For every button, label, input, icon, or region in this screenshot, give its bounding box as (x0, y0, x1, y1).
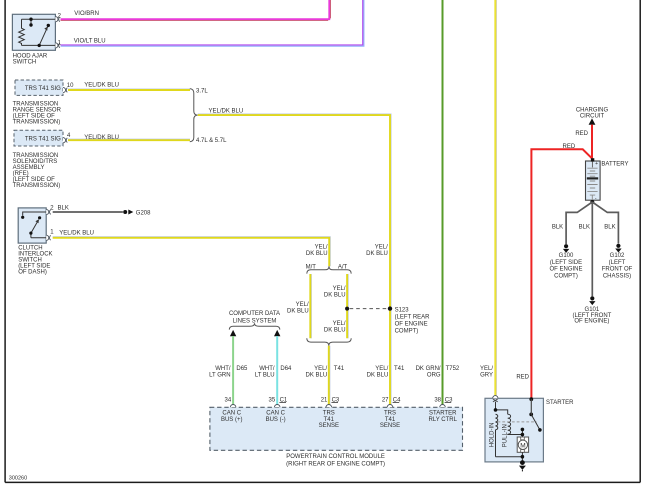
svg-text:TRS T41 SIG: TRS T41 SIG (25, 137, 61, 143)
svg-text:RED: RED (516, 374, 529, 380)
wire WHT/LT BLU (276, 336, 278, 407)
label BLK (604, 225, 615, 231)
svg-text:YEL/: YEL/ (333, 286, 346, 292)
svg-text:ORG: ORG (427, 372, 441, 378)
wire (dashed link to splice S123) (350, 308, 388, 310)
svg-text:YEL/DK BLU: YEL/DK BLU (209, 109, 244, 115)
label VIO/LT BLU (74, 38, 106, 44)
svg-text:YEL/: YEL/ (296, 302, 309, 308)
svg-text:YEL/DK BLU: YEL/DK BLU (84, 83, 119, 89)
label YEL/DK BLU (above M/T split) (306, 245, 328, 257)
svg-text:STARTER: STARTER (546, 400, 574, 406)
svg-text:G102: G102 (610, 253, 625, 259)
svg-text:(LEFT: (LEFT (609, 260, 626, 266)
label YEL/DK BLU (M/T) (287, 302, 309, 314)
svg-text:300260: 300260 (9, 475, 27, 481)
wire BLK (battery to G100) (566, 202, 592, 244)
label DK GRN/ORG (416, 366, 441, 379)
ground G208 (123, 210, 151, 217)
label YEL/DK BLU (splice branch) (366, 245, 388, 257)
svg-text:21: 21 (321, 397, 328, 403)
svg-text:DK BLU: DK BLU (306, 251, 328, 257)
label A/T (338, 264, 348, 270)
svg-text:3.7L: 3.7L (196, 89, 208, 95)
svg-text:BLK: BLK (58, 206, 69, 212)
svg-text:DK GRN/: DK GRN/ (416, 366, 441, 372)
svg-text:PULL-IN: PULL-IN (502, 424, 508, 447)
wire YEL/DK BLU (TRS pin 10, 3.7L) (68, 89, 190, 90)
label T41 (334, 366, 345, 372)
svg-text:OF DASH): OF DASH) (18, 270, 47, 276)
svg-text:G100: G100 (559, 253, 574, 259)
label COMPUTER DATA LINES SYSTEM (229, 311, 280, 324)
label YEL/DK BLU (59, 231, 94, 237)
pin 1 (hood ajar switch) (58, 40, 62, 46)
label BLK (58, 206, 69, 212)
label BATTERY (601, 162, 628, 168)
svg-text:BATTERY: BATTERY (601, 162, 628, 168)
svg-text:M/T: M/T (306, 264, 317, 270)
svg-text:T752: T752 (446, 366, 460, 372)
svg-text:VIO/LT BLU: VIO/LT BLU (74, 38, 106, 44)
brace splitting M/T and A/T paths (307, 266, 351, 273)
label D64 (280, 366, 292, 372)
svg-text:TRANSMISSION: TRANSMISSION (13, 101, 59, 107)
svg-text:HOLD-IN: HOLD-IN (490, 423, 496, 448)
svg-text:+: + (595, 161, 598, 167)
svg-text:SWITCH: SWITCH (13, 60, 37, 66)
transmission range sensor (TRS T41 SIG) (13, 80, 68, 125)
svg-text:TRS: TRS (323, 410, 335, 416)
svg-text:BLK: BLK (552, 225, 563, 231)
svg-text:BUS (-): BUS (-) (266, 417, 286, 423)
powertrain control module U1 (210, 404, 463, 467)
wire YEL/GRY (to starter hold-in) (495, 0, 496, 395)
wire YEL/DK BLU (TRS pin 4, 4.7L & 5.7L) (68, 139, 190, 140)
pin 27 C4 (PCM) (382, 397, 401, 403)
svg-text:YEL/: YEL/ (375, 366, 388, 372)
wire BLK (battery to G101) (591, 202, 593, 296)
svg-text:38: 38 (434, 397, 441, 403)
svg-text:FRONT OF: FRONT OF (602, 267, 633, 273)
ground G102 (602, 244, 633, 280)
svg-text:TRS: TRS (384, 410, 396, 416)
label 300260 (diagram number) (9, 475, 27, 481)
label BLK (552, 225, 563, 231)
svg-text:T41: T41 (385, 417, 396, 423)
svg-text:DK BLU: DK BLU (366, 251, 388, 257)
svg-text:LT GRN: LT GRN (209, 372, 230, 378)
svg-text:DK BLU: DK BLU (324, 293, 346, 299)
junction on A/T branch (345, 307, 349, 311)
svg-text:YEL/: YEL/ (314, 366, 327, 372)
arrow (to charging circuit) (589, 118, 596, 124)
wire DK GRN/ORG (starter relay control) (442, 0, 444, 407)
svg-text:YEL/: YEL/ (333, 321, 346, 327)
starter (485, 396, 543, 462)
svg-text:10: 10 (67, 83, 74, 89)
svg-text:RED: RED (563, 144, 576, 150)
brace merging 3.7L and 4.7L/5.7L wires (190, 89, 198, 142)
label D65 (236, 366, 248, 372)
wire YEL/DK BLU (A/T branch) (347, 274, 348, 338)
svg-text:YEL/: YEL/ (375, 245, 388, 251)
svg-text:STARTER: STARTER (429, 410, 457, 416)
label 4.7L & 5.7L (196, 138, 227, 144)
ground G101 (572, 296, 611, 324)
battery (586, 158, 601, 204)
wire YEL/DK BLU (T41 to PCM pin 21) (329, 346, 330, 408)
pin 38 C3 (PCM) (434, 397, 453, 403)
label STARTER (546, 400, 574, 406)
svg-text:RED: RED (575, 131, 588, 137)
hood ajar switch (12, 14, 60, 65)
svg-text:POWERTRAIN CONTROL MODULE: POWERTRAIN CONTROL MODULE (286, 454, 385, 460)
svg-text:HOOD AJAR: HOOD AJAR (13, 53, 48, 59)
svg-text:4.7L & 5.7L: 4.7L & 5.7L (196, 138, 227, 144)
label 3.7L (196, 89, 208, 95)
label YEL/DK BLU (A/T lower) (324, 321, 346, 333)
svg-text:T41: T41 (394, 366, 405, 372)
label T41 (394, 366, 405, 372)
pin 10 (transmission range sensor) (67, 83, 74, 89)
wire BLK (clutch switch to G208) (53, 211, 123, 213)
label RED (at starter) (516, 374, 529, 380)
svg-text:DK BLU: DK BLU (287, 308, 309, 314)
svg-text:SENSE: SENSE (380, 423, 400, 429)
svg-text:T41: T41 (324, 417, 335, 423)
clutch interlock switch (18, 208, 52, 276)
svg-text:WHT/: WHT/ (259, 366, 275, 372)
brace (computer data lines system) (229, 323, 279, 329)
svg-text:YEL/DK BLU: YEL/DK BLU (84, 135, 119, 141)
ground G100 (549, 244, 582, 279)
label YEL/DK BLU (PCM pin 21) (306, 366, 328, 379)
ground (starter motor) (519, 460, 526, 471)
svg-text:CIRCUIT: CIRCUIT (580, 114, 605, 120)
svg-text:(LEFT REAR: (LEFT REAR (395, 315, 431, 321)
label RED (563, 144, 576, 150)
svg-text:M: M (520, 442, 525, 449)
svg-text:COMPUTER DATA: COMPUTER DATA (229, 311, 280, 317)
svg-text:RLY CTRL: RLY CTRL (428, 417, 457, 423)
arrow (CAN C bus - to data lines) (274, 330, 280, 336)
svg-text:G208: G208 (136, 210, 151, 216)
svg-text:CAN C: CAN C (222, 410, 241, 416)
label RED (575, 131, 588, 137)
svg-text:TRS T41 SIG: TRS T41 SIG (25, 86, 61, 92)
label T752 (446, 366, 460, 372)
svg-text:VIO/BRN: VIO/BRN (74, 11, 99, 17)
svg-text:YEL/DK BLU: YEL/DK BLU (59, 231, 94, 237)
svg-text:CAN C: CAN C (266, 410, 285, 416)
label YEL/DK BLU (A/T upper) (324, 286, 346, 298)
pin 21 C3 (PCM) (321, 397, 340, 403)
svg-text:TRANSMISSION): TRANSMISSION) (13, 183, 61, 189)
pin 2 (hood ajar switch) (58, 14, 62, 20)
svg-text:YEL/: YEL/ (480, 366, 493, 372)
svg-text:D65: D65 (236, 366, 248, 372)
svg-text:OF ENGINE: OF ENGINE (395, 322, 428, 328)
label YEL/DK BLU (84, 83, 119, 89)
splice S123 (388, 306, 392, 310)
pin 1 (clutch interlock switch) (50, 230, 54, 236)
wire YEL/DK BLU (merged T41 to S123 / PCM pin 27) (198, 114, 391, 407)
svg-text:COMPT): COMPT) (554, 273, 578, 279)
svg-text:CHARGING: CHARGING (576, 108, 609, 114)
label S123 (LEFT REAR OF ENGINE COMPT) (395, 307, 431, 334)
svg-text:OF ENGINE): OF ENGINE) (574, 319, 609, 325)
svg-text:S123: S123 (395, 307, 410, 313)
pin 4 (transmission solenoid/TRS assembly) (67, 133, 71, 139)
svg-text:TRANSMISSION): TRANSMISSION) (13, 119, 61, 125)
wire BLK (battery to G102) (592, 202, 618, 244)
svg-text:CHASSIS): CHASSIS) (603, 273, 631, 279)
svg-text:GRY: GRY (480, 372, 493, 378)
wire VIO/LT BLU (61, 0, 364, 46)
svg-text:OF ENGINE: OF ENGINE (549, 267, 582, 273)
svg-text:BLK: BLK (579, 225, 590, 231)
label WHT/LT GRN (209, 366, 231, 379)
label VIO/BRN (74, 11, 99, 17)
label M/T (306, 264, 317, 270)
svg-text:BLK: BLK (604, 225, 615, 231)
wire YEL/DK BLU (M/T branch) (310, 274, 311, 338)
svg-text:DK BLU: DK BLU (367, 372, 389, 378)
wire RED (battery to starter) (531, 149, 592, 399)
svg-text:DK BLU: DK BLU (306, 372, 328, 378)
pin 2 (clutch interlock switch) (50, 206, 54, 212)
label YEL/DK BLU (209, 109, 244, 115)
svg-text:WHT/: WHT/ (215, 366, 231, 372)
svg-text:A/T: A/T (338, 264, 348, 270)
label CHARGING CIRCUIT (576, 108, 609, 120)
label BLK (579, 225, 590, 231)
svg-text:35: 35 (269, 397, 276, 403)
transmission solenoid/TRS assembly (TRS T41 SIG) (13, 130, 68, 189)
svg-text:BUS (+): BUS (+) (221, 417, 243, 423)
svg-text:SENSE: SENSE (319, 423, 339, 429)
label YEL/GRY (480, 366, 493, 379)
svg-text:YEL/: YEL/ (315, 245, 328, 251)
svg-text:D64: D64 (280, 366, 292, 372)
label YEL/DK BLU (PCM pin 27) (367, 366, 389, 379)
wire WHT/LT GRN (232, 336, 234, 407)
wire YEL/DK BLU (clutch switch to M/T split) (53, 237, 331, 267)
svg-text:COMPT): COMPT) (395, 329, 419, 335)
arrow (CAN C bus + to data lines) (230, 330, 236, 336)
svg-text:34: 34 (225, 397, 232, 403)
pin 34 (PCM) (225, 397, 232, 403)
wire RED (battery to charging circuit) (591, 125, 593, 159)
label YEL/DK BLU (84, 135, 119, 141)
svg-text:(LEFT SIDE: (LEFT SIDE (550, 260, 582, 266)
svg-text:T41: T41 (334, 366, 345, 372)
junction (red wire at starter case) (529, 397, 533, 414)
svg-text:LT BLU: LT BLU (255, 372, 275, 378)
pin 35 C1 (PCM) (269, 397, 288, 403)
svg-text:DK BLU: DK BLU (324, 327, 346, 333)
label WHT/LT BLU (255, 366, 275, 379)
brace merging M/T and A/T paths (307, 338, 351, 345)
wire VIO/BRN (61, 0, 331, 20)
svg-text:27: 27 (382, 397, 389, 403)
svg-text:(RIGHT REAR OF ENGINE COMPT): (RIGHT REAR OF ENGINE COMPT) (286, 461, 385, 467)
